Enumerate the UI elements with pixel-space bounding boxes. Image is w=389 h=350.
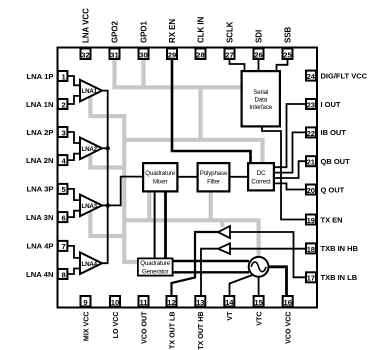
svg-text:LNA 3P: LNA 3P <box>26 185 53 194</box>
svg-text:Serial: Serial <box>253 89 268 96</box>
svg-text:16: 16 <box>283 298 291 307</box>
svg-text:VCO OUT: VCO OUT <box>140 311 148 344</box>
svg-text:DIG/FLT VCC: DIG/FLT VCC <box>321 71 368 80</box>
svg-text:LNA2: LNA2 <box>82 146 98 153</box>
svg-text:RX EN: RX EN <box>168 19 177 43</box>
svg-text:CLK IN: CLK IN <box>196 16 205 43</box>
svg-text:VCO VCC: VCO VCC <box>285 312 293 344</box>
svg-text:DC: DC <box>257 170 266 177</box>
svg-text:22: 22 <box>307 129 315 138</box>
svg-text:Q OUT: Q OUT <box>321 185 345 194</box>
svg-text:15: 15 <box>254 298 263 307</box>
svg-text:TXB IN HB: TXB IN HB <box>321 244 359 253</box>
svg-text:19: 19 <box>307 216 315 225</box>
svg-text:20: 20 <box>307 186 315 195</box>
svg-text:32: 32 <box>81 50 89 59</box>
svg-text:Filter: Filter <box>207 178 220 185</box>
svg-text:LNA1: LNA1 <box>82 88 98 95</box>
svg-text:MIX VCC: MIX VCC <box>82 312 90 342</box>
svg-text:Correct: Correct <box>251 178 271 185</box>
svg-text:31: 31 <box>110 50 119 59</box>
svg-text:Quadrature: Quadrature <box>145 170 176 177</box>
svg-text:14: 14 <box>225 298 234 307</box>
svg-text:26: 26 <box>254 50 262 59</box>
svg-text:11: 11 <box>139 298 148 307</box>
svg-text:30: 30 <box>139 50 147 59</box>
svg-text:LNA 1N: LNA 1N <box>26 100 54 109</box>
svg-text:LNA4: LNA4 <box>82 261 98 268</box>
svg-text:LNA VCC: LNA VCC <box>81 8 90 43</box>
svg-text:LNA 4P: LNA 4P <box>26 242 53 251</box>
svg-text:TX EN: TX EN <box>321 215 343 224</box>
svg-text:6: 6 <box>61 213 65 222</box>
svg-text:QB OUT: QB OUT <box>321 157 351 166</box>
svg-text:SCLK: SCLK <box>225 21 234 43</box>
svg-text:18: 18 <box>307 245 315 254</box>
svg-text:TXB IN LB: TXB IN LB <box>321 273 358 282</box>
svg-text:LNA 2P: LNA 2P <box>26 128 53 137</box>
svg-text:LNA 1P: LNA 1P <box>26 72 53 81</box>
svg-text:27: 27 <box>225 50 233 59</box>
svg-text:2: 2 <box>61 100 65 109</box>
svg-text:12: 12 <box>167 298 175 307</box>
svg-text:LNA 2N: LNA 2N <box>26 156 54 165</box>
svg-text:28: 28 <box>196 50 204 59</box>
svg-text:GPO1: GPO1 <box>139 20 148 43</box>
svg-text:VT: VT <box>226 311 234 321</box>
svg-text:LNA3: LNA3 <box>82 203 98 210</box>
svg-text:7: 7 <box>61 242 65 251</box>
svg-text:3: 3 <box>61 128 65 137</box>
svg-text:Interface: Interface <box>249 104 272 111</box>
svg-text:9: 9 <box>83 298 87 307</box>
svg-text:LO VCC: LO VCC <box>112 312 120 339</box>
svg-text:Mixer: Mixer <box>153 178 167 185</box>
svg-text:I OUT: I OUT <box>321 100 341 109</box>
svg-text:10: 10 <box>111 298 119 307</box>
svg-text:24: 24 <box>307 72 316 81</box>
svg-text:SSB: SSB <box>283 26 292 43</box>
svg-text:SDI: SDI <box>254 30 263 43</box>
svg-text:TX OUT LB: TX OUT LB <box>168 312 176 349</box>
svg-text:VTC: VTC <box>255 312 263 326</box>
svg-text:Data: Data <box>254 97 267 104</box>
svg-text:Polyphase: Polyphase <box>200 170 228 177</box>
svg-text:17: 17 <box>307 274 315 283</box>
svg-text:8: 8 <box>61 270 65 279</box>
svg-text:13: 13 <box>196 298 204 307</box>
svg-text:25: 25 <box>283 50 292 59</box>
svg-text:GPO2: GPO2 <box>110 20 119 43</box>
svg-text:29: 29 <box>168 50 176 59</box>
svg-text:TX OUT HB: TX OUT HB <box>197 312 205 350</box>
svg-text:23: 23 <box>307 100 315 109</box>
svg-text:IB OUT: IB OUT <box>321 128 347 137</box>
svg-text:LNA 3N: LNA 3N <box>26 213 54 222</box>
svg-text:LNA 4N: LNA 4N <box>26 270 54 279</box>
svg-text:Quadrature: Quadrature <box>140 260 171 267</box>
svg-text:Generator: Generator <box>142 268 169 275</box>
svg-text:21: 21 <box>307 158 316 167</box>
